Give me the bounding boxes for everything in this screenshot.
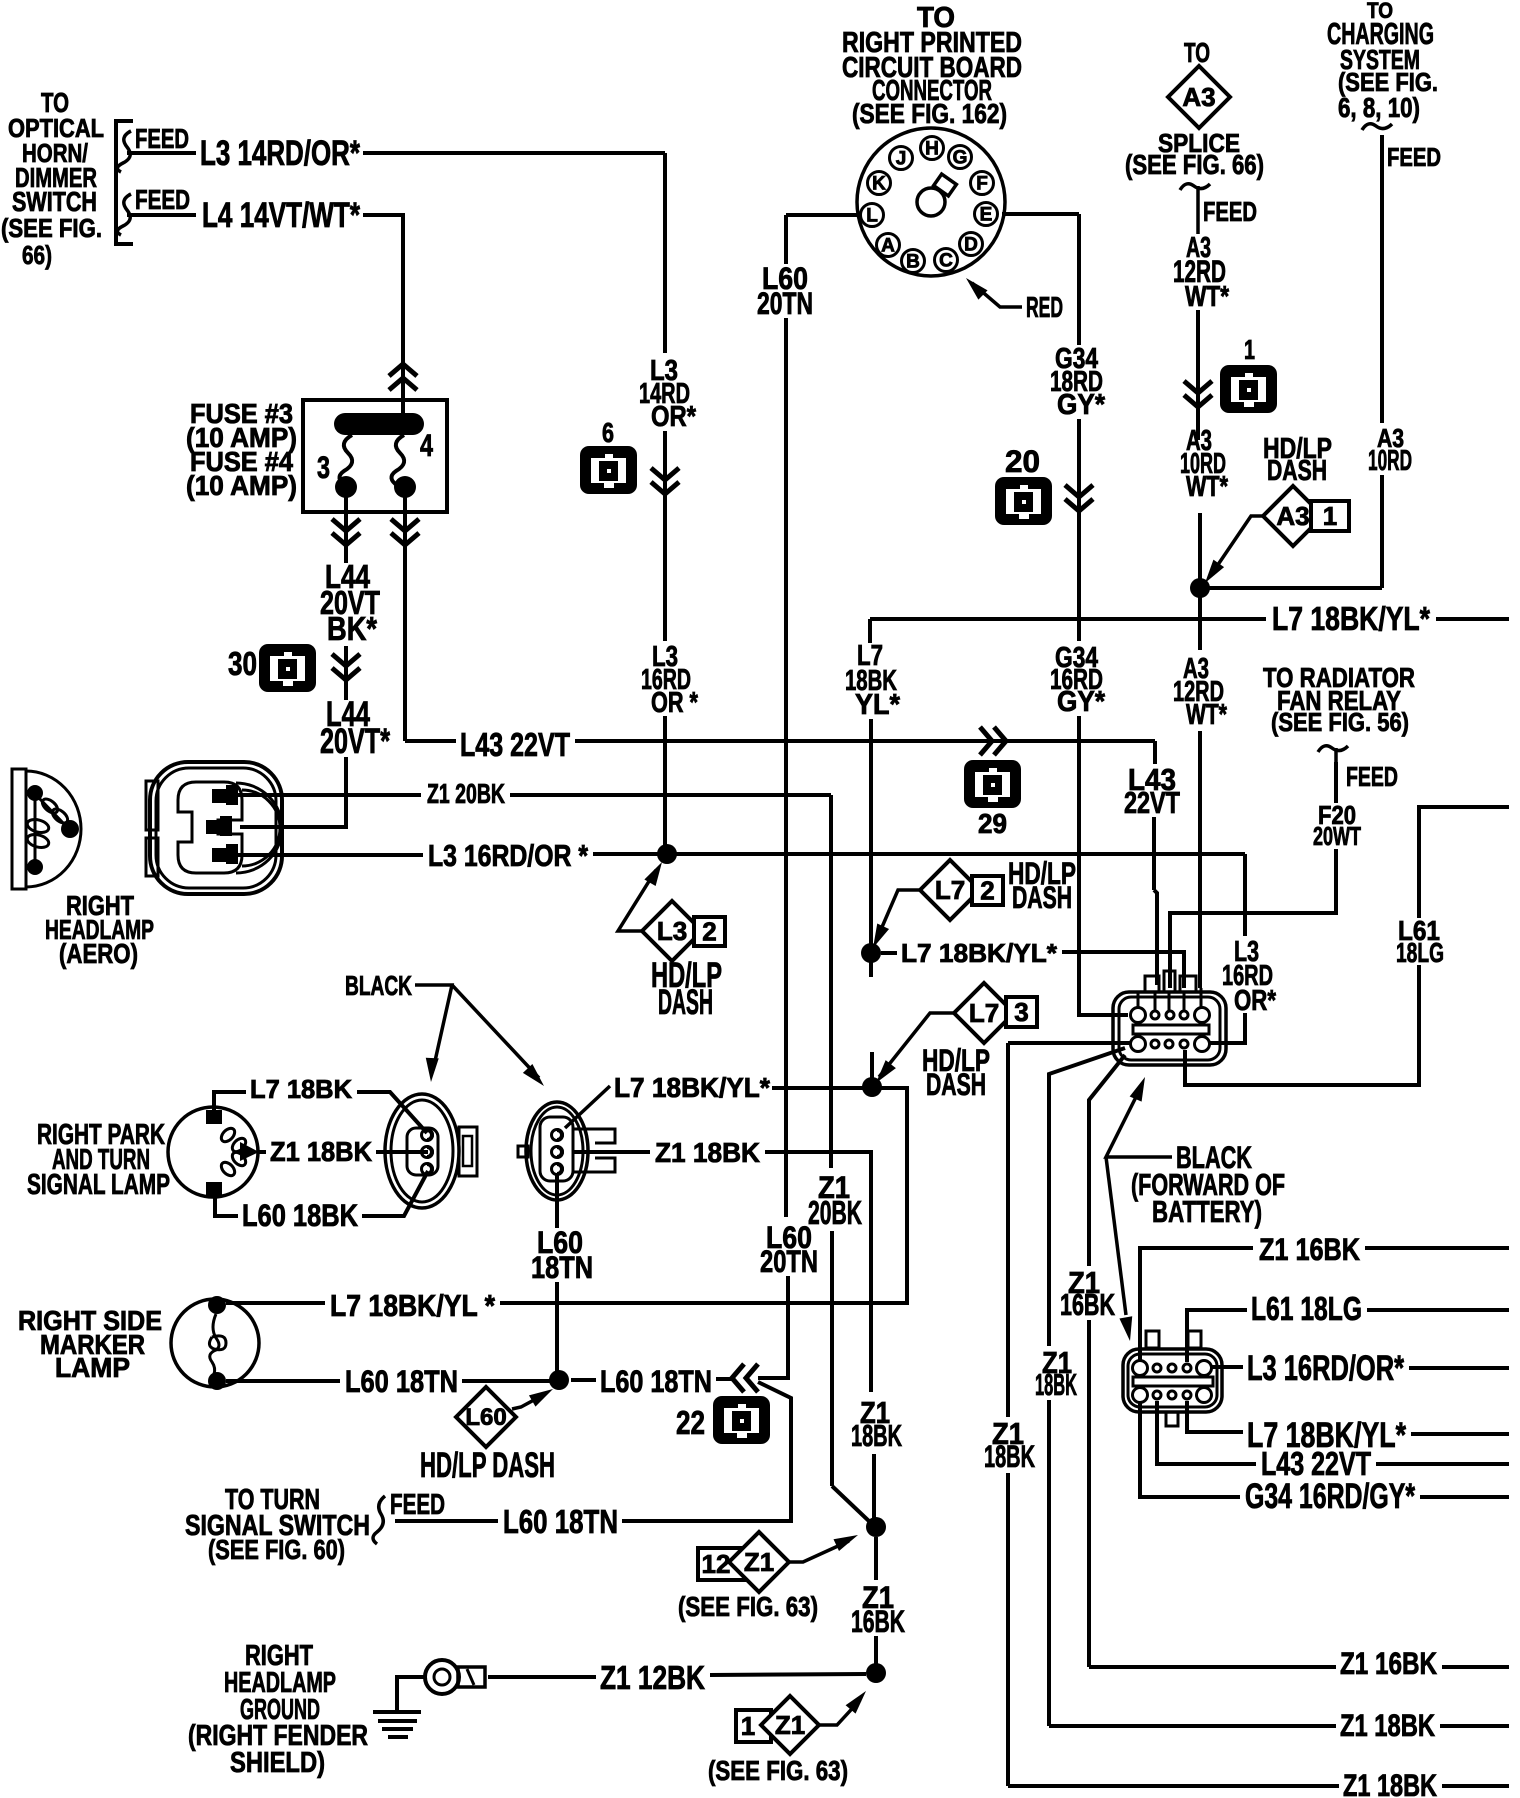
- svg-text:L: L: [866, 206, 878, 227]
- svg-text:(SEE FIG. 66): (SEE FIG. 66): [1125, 149, 1264, 180]
- lamp tabs: [206, 1110, 222, 1124]
- connector pin F: [971, 172, 994, 195]
- marker lamp filament: [210, 1314, 219, 1374]
- splice ref L60 diamond: [456, 1387, 516, 1447]
- svg-text:G: G: [953, 148, 968, 169]
- headlamp connector inner cavity: [178, 782, 242, 873]
- C1 middle slot: [1133, 1025, 1209, 1034]
- wire: L7 vertical upper: [868, 619, 872, 643]
- svg-text:(SEE FIG. 60): (SEE FIG. 60): [208, 1534, 345, 1565]
- wire: F20 to C1: [1170, 849, 1336, 988]
- svg-text:FEED: FEED: [1203, 196, 1257, 227]
- connector B pins: [552, 1130, 563, 1141]
- svg-text:Z1 18BK: Z1 18BK: [655, 1137, 760, 1168]
- feed squiggle (F20): [1318, 746, 1348, 752]
- svg-text:L60 18TN: L60 18TN: [503, 1504, 618, 1541]
- svg-text:3: 3: [317, 449, 330, 485]
- headlamp connector left tabs: [146, 781, 158, 830]
- wire: Z1 18BK long vertical 1: [1006, 1043, 1010, 1417]
- svg-text:22: 22: [676, 1405, 705, 1442]
- svg-text:FEED: FEED: [135, 123, 189, 154]
- svg-text:18BK: 18BK: [851, 1419, 902, 1453]
- svg-text:L60 18BK: L60 18BK: [242, 1197, 358, 1233]
- svg-text:2: 2: [702, 916, 716, 946]
- svg-text:30: 30: [228, 646, 257, 683]
- svg-text:F: F: [976, 174, 988, 195]
- wire: Z1 20BK diagonal to junction: [832, 1486, 872, 1524]
- wire: L7 18BK from lamp: [214, 1092, 246, 1110]
- wire: L60 18TN right of junction: [571, 1378, 596, 1382]
- svg-text:6: 6: [602, 417, 614, 448]
- connector pin L: [861, 204, 884, 227]
- connector pin B: [902, 250, 925, 273]
- bracket (optical horn feeds): [116, 121, 133, 244]
- svg-text:29: 29: [978, 808, 1007, 839]
- splice ref box 1: [1311, 501, 1349, 531]
- wire: fuse 3 output: [344, 497, 348, 563]
- connector B left tab: [518, 1146, 528, 1157]
- splice ref L7>2 diamond: [920, 860, 980, 920]
- chevron on L44: [332, 654, 360, 666]
- svg-text:L7 18BK: L7 18BK: [250, 1074, 352, 1104]
- wire: L7 18BK/YL * from marker lamp: [226, 1301, 325, 1305]
- leader 1<Z1 to junction: [819, 1700, 860, 1725]
- svg-text:3: 3: [1014, 997, 1028, 1027]
- svg-text:(AERO): (AERO): [59, 938, 138, 969]
- feed squiggle (A3): [1180, 184, 1210, 190]
- junction dot L7 (lower): [862, 1077, 882, 1097]
- svg-text:(SEE FIG.: (SEE FIG.: [1, 213, 102, 243]
- svg-text:4: 4: [420, 427, 433, 463]
- svg-text:10RD: 10RD: [1368, 445, 1412, 477]
- splice ref 1<Z1: [736, 1710, 771, 1742]
- headlamp connector body: [150, 762, 282, 894]
- svg-text:(SEE FIG. 56): (SEE FIG. 56): [1271, 707, 1409, 737]
- wire: charging feed vertical: [1380, 135, 1384, 423]
- feed squiggle 2: [117, 194, 131, 235]
- C2 top row pins: [1133, 1361, 1148, 1376]
- wire: L7 18BK/YL* label at junction: [881, 951, 897, 955]
- wire: L3 14RD/OR* horizontal: [363, 151, 665, 155]
- svg-text:D: D: [964, 235, 978, 256]
- wire: L43 22VT horizontal: [405, 739, 456, 743]
- svg-text:22VT: 22VT: [1124, 786, 1180, 820]
- connector pin J: [890, 147, 913, 170]
- svg-text:(10 AMP): (10 AMP): [186, 470, 297, 501]
- headlamp connector pin 1: [212, 789, 228, 803]
- svg-text:WT*: WT*: [1185, 281, 1230, 313]
- wire: Z1 18BK from connector B: [574, 1150, 650, 1154]
- svg-text:Z1 18BK: Z1 18BK: [1343, 1767, 1437, 1798]
- leader RED: [972, 283, 1022, 307]
- svg-text:20TN: 20TN: [757, 285, 813, 321]
- wire: G34 vertical mid: [1077, 419, 1081, 641]
- wire: Z1 16BK bottom: [1089, 1665, 1336, 1669]
- wire: G34 16RD/GY* from C2: [1140, 1401, 1240, 1497]
- wire: A3 vertical: [1196, 310, 1200, 440]
- svg-text:E: E: [980, 205, 993, 226]
- wire: L44 segment: [344, 646, 348, 700]
- headlamp filaments: [27, 785, 43, 801]
- wire: A3 down to C1: [1198, 731, 1202, 988]
- right side marker lamp body: [171, 1299, 259, 1387]
- fuse pin 3 dot: [335, 476, 357, 498]
- wire: L4 14VT/WT* to fuse box: [363, 215, 403, 400]
- connector pin E: [975, 203, 998, 226]
- wire: L61 18LG top right: [1419, 807, 1509, 918]
- svg-text:L7 18BK/YL*: L7 18BK/YL*: [901, 938, 1058, 968]
- wire: Z1 12BK: [488, 1675, 596, 1679]
- wire: L3 to C1 bottom right pin: [1243, 854, 1247, 936]
- svg-text:H: H: [925, 139, 939, 160]
- svg-text:A3: A3: [1276, 501, 1309, 531]
- svg-text:20WT: 20WT: [1313, 821, 1361, 851]
- svg-text:L60: L60: [465, 1404, 506, 1431]
- svg-text:GY*: GY*: [1057, 389, 1106, 421]
- junction dot A3: [1190, 578, 1210, 598]
- wire: Z1 from C1 bottom-left pin (left): [1008, 1041, 1130, 1045]
- lamp filaments: [219, 1126, 237, 1144]
- splice ref box 2 (L7): [972, 876, 1003, 905]
- wire: from pin L (L60 20TN): [786, 213, 860, 217]
- svg-text:WT*: WT*: [1186, 699, 1228, 731]
- leader from L7>3 to junction: [879, 1013, 954, 1077]
- svg-text:K: K: [872, 174, 886, 195]
- wire: Z1 18BK bottom 2: [1049, 1724, 1336, 1728]
- svg-text:L7 18BK/YL*: L7 18BK/YL*: [1272, 601, 1430, 638]
- wire: ground lead: [397, 1677, 425, 1712]
- splice ref L3>2 diamond: [642, 901, 702, 961]
- wire: L3 vertical mid: [663, 431, 667, 641]
- junction dot L7 (upper): [861, 943, 881, 963]
- wire: L4 into fuse bus: [401, 400, 405, 418]
- svg-text:20: 20: [1005, 443, 1040, 479]
- svg-text:2: 2: [980, 875, 994, 905]
- C1 bottom row pins: [1131, 1037, 1146, 1052]
- svg-text:BK*: BK*: [327, 611, 377, 648]
- fuse element 4: [391, 435, 404, 486]
- connector C1 body: [1113, 992, 1226, 1065]
- svg-text:66): 66): [22, 240, 52, 270]
- wire: L3 16RD/OR* from C2: [1212, 1365, 1243, 1369]
- connector pin K: [868, 172, 891, 195]
- connector pin H: [921, 137, 944, 160]
- svg-text:1: 1: [1244, 334, 1255, 365]
- wire: L60 20TN vertical (top): [784, 215, 788, 264]
- svg-text:Z1: Z1: [744, 1547, 774, 1577]
- headlamp connector pin 3: [212, 848, 228, 862]
- wire: A3 junction continues down: [1198, 596, 1202, 650]
- wire: L7 vertical to junction: [869, 719, 873, 945]
- connector center keyway: [917, 188, 945, 216]
- wire: L60 18TN right segment: [622, 1382, 791, 1521]
- svg-text:(SEE FIG. 63): (SEE FIG. 63): [708, 1755, 848, 1786]
- connector C2 body: [1123, 1349, 1222, 1412]
- wire: L7 to C1 top: [1062, 952, 1184, 988]
- splice ref box 3 (L7): [1006, 997, 1037, 1027]
- circular connector body: [857, 128, 1005, 276]
- wire: L3 16RD/OR from headlamp pin 3: [238, 853, 423, 857]
- splice ref L7>3 diamond: [954, 983, 1014, 1043]
- svg-text:G34 16RD/GY*: G34 16RD/GY*: [1245, 1477, 1415, 1516]
- wire: L60 18TN from connector B down: [555, 1174, 559, 1228]
- svg-text:RED: RED: [1026, 292, 1063, 324]
- wire: F20 vertical: [1334, 762, 1338, 803]
- fuse pin 4 dot: [394, 476, 416, 498]
- svg-text:L43 22VT: L43 22VT: [460, 727, 570, 764]
- svg-text:YL*: YL*: [855, 689, 901, 721]
- wire: L61 18LG into C2: [1187, 1310, 1247, 1362]
- svg-text:18LG: 18LG: [1396, 937, 1444, 968]
- svg-text:L61 18LG: L61 18LG: [1251, 1291, 1362, 1328]
- junction dot Z1 (upper): [866, 1517, 886, 1537]
- svg-text:FEED: FEED: [1346, 761, 1398, 792]
- C2 bottom tab: [1166, 1412, 1178, 1426]
- wire: G34 vertical (top): [1077, 214, 1081, 345]
- wire: L60 18TN from marker lamp: [226, 1379, 340, 1383]
- svg-text:OR*: OR*: [1234, 985, 1277, 1017]
- svg-text:SIGNAL LAMP: SIGNAL LAMP: [27, 1169, 170, 1201]
- wire: L43 22VT from C2: [1157, 1401, 1256, 1464]
- svg-text:J: J: [896, 149, 907, 170]
- connector pin D: [960, 233, 983, 256]
- chevron up on L4 wire: [389, 364, 417, 376]
- svg-text:A: A: [881, 236, 895, 257]
- wire: L7 18BK/YL* horizontal to junction: [772, 1086, 901, 1090]
- svg-text:(SEE FIG. 162): (SEE FIG. 162): [852, 98, 1007, 129]
- wire: FEED underline to L3 label: [127, 151, 196, 155]
- wire: L43 down right column: [1153, 741, 1157, 764]
- chevrons below fuse: [332, 519, 360, 531]
- svg-text:1: 1: [741, 1711, 755, 1741]
- wire: Z1 20BK vertical: [829, 795, 833, 1168]
- wire: L3 vertical from optical horn: [663, 153, 667, 353]
- svg-text:L60 18TN: L60 18TN: [600, 1363, 712, 1399]
- svg-text:LAMP: LAMP: [55, 1352, 130, 1383]
- wire: Z1 18BK from lamp: [259, 1150, 266, 1154]
- svg-text:SHIELD): SHIELD): [230, 1747, 325, 1779]
- wire: Z1 diag to vertical 3: [1089, 1055, 1125, 1266]
- svg-text:DASH: DASH: [926, 1066, 986, 1102]
- svg-text:C: C: [939, 251, 953, 272]
- svg-text:L60 18TN: L60 18TN: [345, 1363, 458, 1399]
- wire: G34 vertical to C1 connector: [1079, 716, 1128, 1015]
- leader from L7>2 to junction: [876, 890, 920, 941]
- svg-text:L3 16RD/OR*: L3 16RD/OR*: [1247, 1349, 1404, 1388]
- connector symbol 29: [964, 760, 1021, 808]
- feed curly (turn signal): [373, 1496, 385, 1544]
- svg-text:DASH: DASH: [1012, 879, 1072, 915]
- chevron right on L43: [980, 727, 992, 755]
- svg-text:12: 12: [702, 1549, 731, 1579]
- svg-text:18BK: 18BK: [1035, 1368, 1077, 1402]
- wire: from pin E (G34): [1002, 212, 1079, 216]
- svg-text:FEED: FEED: [1387, 142, 1441, 172]
- wire: L60 20TN vertical (long): [784, 318, 788, 1217]
- wire: L61 down to C1: [1185, 965, 1419, 1085]
- connector A right tab: [459, 1127, 477, 1176]
- svg-text:Z1: Z1: [775, 1710, 805, 1740]
- svg-text:OR *: OR *: [651, 687, 699, 719]
- ring terminal: [425, 1660, 459, 1694]
- svg-text:20TN: 20TN: [760, 1243, 818, 1279]
- svg-text:1: 1: [1323, 501, 1337, 531]
- wire: L7 18BK/YL* from C2: [1187, 1401, 1243, 1432]
- svg-text:16BK: 16BK: [851, 1603, 905, 1639]
- leader BLACK to C2: [1106, 1157, 1126, 1315]
- svg-text:WT*: WT*: [1186, 471, 1229, 503]
- svg-text:Z1 16BK: Z1 16BK: [1340, 1645, 1437, 1681]
- wire: FEED underline to L4 label: [127, 213, 196, 217]
- headlamp connector pin 2: [206, 820, 222, 834]
- wire: Z1 20BK from headlamp pin 1: [238, 793, 421, 797]
- svg-text:Z1 20BK: Z1 20BK: [427, 778, 505, 809]
- wire: L3 16RD/OR* main horizontal: [593, 852, 1245, 856]
- svg-text:BATTERY): BATTERY): [1152, 1195, 1262, 1229]
- wire: L60 18TN to switch: [395, 1519, 498, 1523]
- svg-text:GY*: GY*: [1057, 686, 1106, 718]
- connector pin G: [949, 146, 972, 169]
- svg-text:L4 14VT/WT*: L4 14VT/WT*: [202, 196, 360, 235]
- right headlamp (AERO) body: [12, 769, 26, 889]
- wire: Z1 16BK into C2: [1140, 1248, 1253, 1362]
- leader from L3>2 to junction: [618, 870, 656, 931]
- connector B right bracket: [574, 1129, 615, 1143]
- splice ref A3>1 diamond: [1263, 486, 1323, 546]
- svg-text:FEED: FEED: [135, 184, 190, 215]
- svg-text:L7 18BK/YL*: L7 18BK/YL*: [614, 1072, 770, 1103]
- splice symbol A3 diamond: [1168, 66, 1230, 128]
- svg-text:16BK: 16BK: [1060, 1288, 1115, 1322]
- wire: A3 junction to charging feed: [1208, 586, 1382, 590]
- svg-text:Z1 18BK: Z1 18BK: [270, 1136, 372, 1167]
- headlamp connector face arcs: [236, 783, 282, 873]
- leader from A3>1 to junction: [1213, 516, 1263, 572]
- junction dot L3: [657, 844, 677, 864]
- wire: fuse 4 output / L43 start: [403, 497, 407, 741]
- svg-text:Z1 18BK: Z1 18BK: [1340, 1707, 1435, 1743]
- svg-text:FEED: FEED: [390, 1489, 445, 1521]
- wire: L7 18BK/YL* from connector B: [565, 1086, 610, 1128]
- connector A body (3-pin oval): [385, 1094, 459, 1208]
- C2 middle slot: [1133, 1377, 1213, 1386]
- connector pin C: [935, 249, 958, 272]
- svg-text:6, 8, 10): 6, 8, 10): [1338, 92, 1420, 123]
- leader L60 to junction: [512, 1394, 545, 1409]
- ground symbol: [373, 1710, 421, 1714]
- svg-text:Z1 12BK: Z1 12BK: [600, 1660, 705, 1697]
- svg-text:TO: TO: [1184, 37, 1210, 68]
- chevron on A3: [1184, 381, 1212, 393]
- fuse bus bar: [334, 413, 424, 435]
- connector B body (3-pin oval): [526, 1102, 588, 1200]
- svg-text:L3: L3: [657, 916, 687, 946]
- wire: L60 18BK from lamp: [215, 1197, 238, 1216]
- C1 comb structure: [1145, 976, 1159, 992]
- junction dot Z1 (lower): [866, 1663, 886, 1683]
- junction dot L60: [549, 1370, 569, 1390]
- chevron left on L60: [732, 1364, 744, 1392]
- svg-text:L7 18BK/YL *: L7 18BK/YL *: [330, 1289, 495, 1323]
- marker lamp tabs: [208, 1296, 226, 1314]
- svg-text:A3: A3: [1182, 82, 1215, 112]
- splice ref 12<Z1: [698, 1548, 747, 1580]
- svg-text:20BK: 20BK: [808, 1195, 862, 1232]
- svg-text:L3 14RD/OR*: L3 14RD/OR*: [200, 134, 360, 173]
- wire: L3 vertical to junction: [663, 716, 667, 854]
- splice ref box 2 (L3): [694, 917, 725, 946]
- C2 bottom row pins: [1133, 1388, 1148, 1403]
- svg-text:B: B: [906, 252, 920, 273]
- svg-text:(SEE FIG. 63): (SEE FIG. 63): [678, 1591, 818, 1622]
- svg-text:OR*: OR*: [651, 401, 697, 433]
- svg-text:BLACK: BLACK: [345, 970, 412, 1001]
- wire: L7 vertical mid-label: [869, 962, 873, 977]
- leader BLACK fork: [415, 985, 452, 1070]
- chevron on L3: [651, 468, 679, 480]
- feed squiggle 1: [117, 131, 131, 172]
- svg-text:20VT*: 20VT*: [320, 722, 390, 761]
- svg-text:Z1 16BK: Z1 16BK: [1259, 1231, 1360, 1267]
- wire: L44 to headlamp connector: [240, 757, 346, 827]
- C1 top row pins: [1131, 1008, 1146, 1023]
- svg-text:DASH: DASH: [658, 983, 713, 1022]
- svg-text:18TN: 18TN: [531, 1249, 593, 1285]
- wire: Z1 16BK between junctions: [874, 1537, 878, 1580]
- wire: L60 20TN vertical to L60 18TN junction: [758, 1276, 788, 1378]
- fuse element 3: [339, 435, 352, 486]
- right park and turn signal lamp body: [168, 1107, 258, 1197]
- wire: L7 18BK/YL* horizontal (upper): [870, 617, 1266, 621]
- leader 12<Z1 to junction: [789, 1541, 849, 1562]
- wire: L7 turn down to marker lamp line: [500, 1088, 907, 1303]
- svg-text:L7: L7: [969, 998, 999, 1028]
- wire: Z1 18BK bottom 3: [1008, 1784, 1339, 1788]
- connector pin A: [877, 234, 900, 257]
- svg-text:L3 16RD/OR *: L3 16RD/OR *: [428, 839, 588, 873]
- wire: Z1 diag to vertical 2: [1049, 1048, 1125, 1346]
- C2 comb structure: [1146, 1331, 1159, 1348]
- wire: Z1 18BK to vertical: [765, 1152, 871, 1392]
- svg-text:18BK: 18BK: [984, 1438, 1035, 1474]
- wire: A3 vertical to junction: [1198, 513, 1202, 580]
- leader BLACK to C1: [1106, 1087, 1172, 1157]
- svg-text:HD/LP DASH: HD/LP DASH: [420, 1446, 555, 1485]
- svg-text:L7: L7: [935, 875, 965, 905]
- connector A pins: [422, 1130, 433, 1141]
- feed squiggle (charging): [1362, 124, 1392, 130]
- chevron on G34: [1065, 485, 1093, 497]
- svg-text:DASH: DASH: [1267, 455, 1327, 487]
